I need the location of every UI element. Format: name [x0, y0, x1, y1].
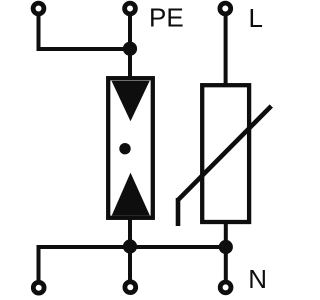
terminal bottom-left	[33, 282, 44, 293]
junction N bus under varistor	[219, 240, 233, 254]
svg-text:L: L	[249, 3, 263, 33]
varistor RV1 diagonal tail	[176, 198, 181, 226]
wire varistor bottom down to junction	[224, 220, 228, 247]
junction N bus under GDT	[123, 239, 137, 253]
terminal bottom-middle	[125, 282, 136, 293]
wire PE terminal down to junction	[128, 13, 132, 49]
terminal top-middle PE	[125, 3, 136, 14]
wire bottom bus horizontal	[37, 245, 226, 249]
GDT1 upper electrode triangle	[112, 81, 150, 122]
wire GDT bottom down to junction	[128, 216, 132, 247]
wire L terminal down to varistor	[224, 13, 228, 87]
terminal bottom-right N	[220, 282, 231, 293]
gas discharge tube GDT1 body	[108, 78, 153, 218]
wire junction to bottom-middle terminal	[128, 247, 132, 283]
GDT1 gap dot	[119, 143, 130, 154]
terminal top-left (PE side)	[33, 3, 44, 14]
wire junction to N terminal	[224, 247, 228, 283]
svg-text:PE: PE	[149, 3, 184, 33]
GDT1 lower electrode triangle	[112, 173, 150, 216]
svg-text:N: N	[248, 264, 267, 294]
wire bottom-left drop	[37, 247, 41, 284]
varistor RV1 body	[202, 85, 249, 222]
terminal top-right L	[220, 3, 231, 14]
wire from top-left terminal down	[37, 13, 41, 49]
varistor RV1 diagonal stroke	[178, 106, 271, 200]
wire junction to gas discharge tube top	[128, 49, 132, 80]
wire horizontal to PE junction	[37, 47, 131, 51]
junction PE node	[123, 42, 137, 56]
